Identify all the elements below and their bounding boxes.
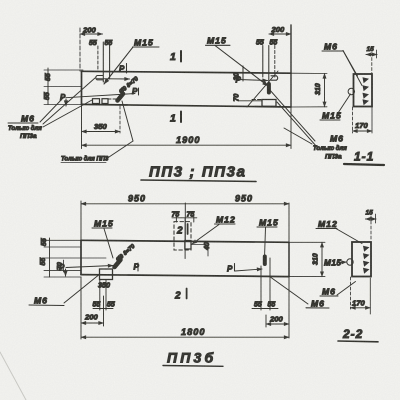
bolt verticals + dim 55/55 bottom-left: [99, 280, 101, 311]
dim 200 bottom-left: [80, 277, 82, 326]
dashed plate line left: [108, 98, 117, 100]
section 1-1 body: [354, 74, 373, 107]
beam outline: [81, 240, 289, 242]
beam outline bottom edge: [82, 104, 292, 107]
bolt verticals right: [260, 266, 262, 310]
solid plate center: [185, 241, 191, 250]
dim 70 inner: [63, 260, 65, 272]
anchor loop bracket left (top row): [96, 76, 103, 80]
loop circle 2-2: [347, 259, 353, 265]
dim 200 top-right: [269, 33, 291, 35]
leader 70 row: [239, 100, 262, 102]
dim 200 bottom-right: [265, 315, 267, 327]
dim 170 1-1: [352, 107, 354, 133]
dashed line into plate right: [252, 99, 262, 101]
dim 200 top-left: [80, 33, 103, 35]
corner crease bottom-left: [0, 352, 26, 400]
left vertical dim chain 55/55: [47, 68, 49, 105]
dim 1900: [81, 105, 83, 149]
right end: leader 30 row: [239, 80, 268, 81]
bolt blob left: [118, 94, 124, 101]
leader M15 right to bolt: [215, 46, 268, 87]
bottom row leader line: [66, 266, 113, 268]
dashed anchor outline center: [174, 222, 191, 250]
weld dots 1-1: [363, 77, 370, 105]
beam outline top edge: [82, 71, 292, 73]
center line through detail: [184, 218, 186, 259]
beam right edge: [290, 25, 292, 107]
leader from note: [106, 141, 133, 159]
leaders from left cluster: [43, 78, 95, 124]
plate rect left: [93, 99, 100, 104]
extra diagonal crossing right end: [247, 71, 278, 107]
bracket right (mirrored): [271, 76, 278, 80]
dim 1800: [80, 326, 82, 339]
leader M15 to bolt: [104, 47, 133, 84]
dim 310 2-2: [289, 241, 325, 243]
leader to M6 right: [271, 278, 308, 305]
dim 310 1-1: [291, 72, 327, 74]
lower row leader line: [66, 94, 135, 98]
leader line top row: [97, 78, 130, 80]
left extension line up: [79, 28, 81, 71]
dim 40: [191, 244, 206, 246]
plate square bottom-left: [100, 269, 113, 280]
leaders to beam right end: [269, 89, 315, 141]
weld dots 2-2: [363, 246, 370, 274]
plate rect right: [262, 100, 276, 107]
bolt blob bottom-left: [115, 260, 121, 267]
dim 950+950: [80, 201, 82, 240]
leader from bolt down: [122, 101, 133, 141]
loop circle 1-1: [348, 88, 354, 94]
beam left edge: [81, 71, 83, 104]
dim 55/55 top-left verticals: [97, 46, 99, 72]
bolt blob: [263, 257, 267, 265]
section 2-2 body: [352, 242, 371, 277]
bolt blob right: [267, 84, 271, 93]
dim 55/55 top-right verticals: [262, 46, 264, 78]
dim 170 2-2: [350, 277, 352, 309]
dim 350: [82, 131, 121, 133]
dim 75/75: [172, 217, 197, 219]
left vertical dim chain bottom: [49, 238, 51, 277]
